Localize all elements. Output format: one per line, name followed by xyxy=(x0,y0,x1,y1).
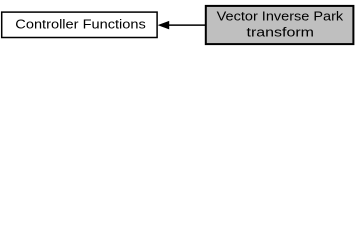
node box: Vector Inverse Park transform xyxy=(206,6,354,44)
svg-text:Controller Functions: Controller Functions xyxy=(15,17,146,32)
node label line 1: Vector Inverse Park xyxy=(217,8,344,23)
node box: Controller Functions xyxy=(2,12,157,37)
edge wire xyxy=(168,24,206,26)
node label line 2: transform xyxy=(247,25,315,40)
arrowhead xyxy=(159,21,169,28)
node label: Controller Functions xyxy=(15,17,146,32)
svg-text:transform: transform xyxy=(247,25,315,40)
svg-text:Vector Inverse Park: Vector Inverse Park xyxy=(217,8,344,23)
